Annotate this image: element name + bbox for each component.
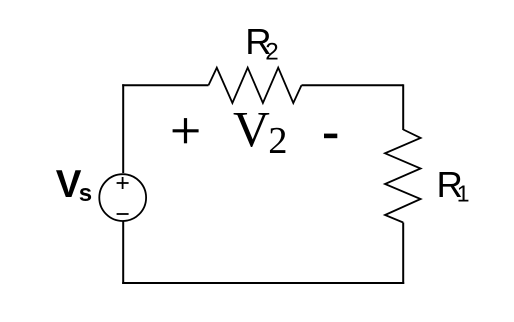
svg-text:s: s — [79, 180, 92, 207]
resistor R1 (zigzag, right) — [385, 130, 421, 223]
polarity minus (right of V2) — [324, 134, 337, 139]
wire top-left horizontal — [122, 84, 208, 86]
wire left vertical upper — [122, 84, 124, 173]
wire left vertical lower — [122, 222, 124, 285]
voltage source Vs (circle) — [99, 174, 146, 221]
svg-text:2: 2 — [265, 39, 278, 66]
resistor R2 (zigzag, top) — [209, 68, 302, 103]
wire top-right horizontal — [302, 84, 404, 86]
svg-text:1: 1 — [457, 180, 470, 206]
minus mark inside source — [117, 213, 129, 215]
svg-text:2: 2 — [268, 120, 287, 162]
plus mark inside source — [117, 182, 129, 184]
wire right vertical lower — [402, 223, 404, 285]
svg-text:V: V — [233, 103, 270, 159]
wire bottom horizontal — [122, 282, 404, 284]
wire right vertical upper — [402, 84, 404, 130]
polarity plus (left of V2) — [173, 129, 199, 132]
